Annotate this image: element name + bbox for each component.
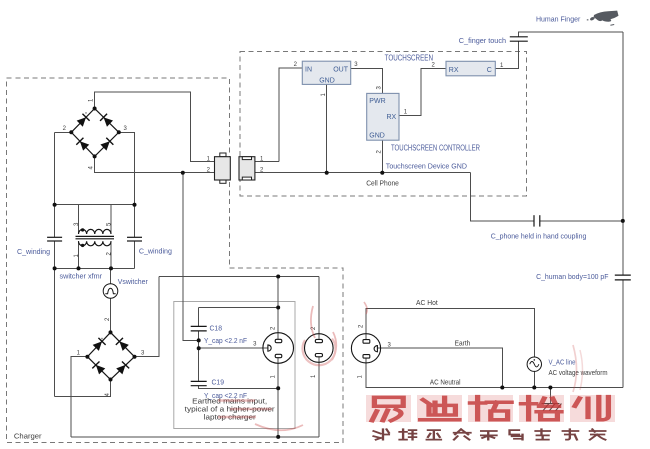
svg-text:3: 3 bbox=[388, 342, 392, 348]
connector J2 cell phone USB receptacle bbox=[239, 157, 255, 180]
wire: bridge D2 pin3 up to mains top rail bbox=[135, 277, 159, 357]
svg-text:Charger: Charger bbox=[14, 434, 42, 441]
bridge rectifier D2 (mains input bridge) bbox=[85, 330, 136, 381]
node: D2 left vertex bbox=[85, 355, 89, 359]
wire: connector J3 pin1 vertical bbox=[277, 358, 279, 437]
node: mains top rail / J3 pin2 bbox=[276, 275, 280, 279]
svg-text:OUT: OUT bbox=[333, 67, 349, 74]
svg-text:Vswitcher: Vswitcher bbox=[118, 279, 149, 286]
svg-text:1: 1 bbox=[321, 93, 327, 97]
bridge D2 diamond frame bbox=[87, 332, 134, 379]
transformer T1 switcher xfmr bbox=[76, 228, 115, 247]
diode D2d bottom-right bbox=[116, 361, 129, 374]
svg-text:1: 1 bbox=[270, 375, 276, 379]
wire: transformer pin3 stub bbox=[78, 205, 80, 234]
node: xfmr pin1 junction bbox=[77, 266, 81, 270]
bridge rectifier D1 (charger output bridge) bbox=[69, 107, 121, 159]
capacitor C_finger touch bbox=[510, 37, 528, 41]
wire: transformer pin1 stub bbox=[78, 241, 80, 268]
capacitor C18 Y-cap bbox=[191, 326, 207, 331]
svg-text:C_winding: C_winding bbox=[17, 249, 50, 256]
svg-text:C18: C18 bbox=[210, 326, 223, 333]
svg-text:Touchscreen Device GND: Touchscreen Device GND bbox=[386, 164, 467, 171]
capacitor C_phone held in hand coupling bbox=[534, 215, 540, 226]
node: C18 bottom riser junction bbox=[197, 338, 201, 342]
svg-text:2: 2 bbox=[376, 150, 382, 154]
svg-text:Earth: Earth bbox=[455, 341, 471, 348]
svg-text:C19: C19 bbox=[212, 379, 225, 386]
svg-text:C: C bbox=[487, 67, 492, 74]
wire: C_phone coupling right lead bbox=[540, 220, 623, 222]
node: human finger line / C_phone bbox=[621, 219, 625, 223]
wire: transformer top rail bbox=[55, 204, 135, 206]
svg-text:GND: GND bbox=[369, 133, 385, 140]
wire: human body right vertical middle bbox=[622, 221, 624, 275]
node: D1 top vertex bbox=[93, 107, 97, 111]
source V_AC line bbox=[527, 357, 541, 371]
diode D2a top-left bbox=[92, 338, 105, 351]
svg-text:C_finger touch: C_finger touch bbox=[459, 38, 506, 45]
svg-text:Y_cap <2.2 nF: Y_cap <2.2 nF bbox=[204, 338, 247, 345]
svg-text:*: * bbox=[85, 112, 87, 118]
svg-text:switcher xfmr: switcher xfmr bbox=[60, 273, 103, 280]
diode D2c bottom-left bbox=[92, 361, 105, 374]
node: D1 right vertex bbox=[117, 130, 121, 134]
svg-text:1: 1 bbox=[89, 98, 95, 102]
touchscreen controller U2 block bbox=[367, 93, 399, 140]
watermark pink underlay bbox=[366, 395, 615, 422]
wire: human body right vertical lower bbox=[622, 280, 624, 388]
wire: C_finger touch to Human Finger line bbox=[519, 32, 623, 37]
wire: plug P2 pin1 stub bbox=[318, 357, 320, 437]
svg-text:2: 2 bbox=[432, 62, 436, 68]
node: Y-cap box rail / J3 pin2 bbox=[276, 306, 280, 310]
svg-text:TOUCHSCREEN CONTROLLER: TOUCHSCREEN CONTROLLER bbox=[391, 144, 480, 153]
diode D1c bottom-left bbox=[76, 138, 89, 151]
capacitor C19 Y-cap bbox=[191, 381, 207, 385]
node: U1 GND on ground rail bbox=[325, 171, 329, 175]
svg-text:3: 3 bbox=[124, 126, 128, 132]
svg-text:2: 2 bbox=[270, 326, 276, 330]
wire: Y-cap box top rail bbox=[199, 307, 279, 309]
svg-text:AC Hot: AC Hot bbox=[416, 300, 438, 307]
wire: human body right vertical upper bbox=[622, 32, 624, 221]
node: V_AC on neutral bbox=[532, 386, 536, 390]
diode D1d bottom-right bbox=[100, 138, 113, 151]
capacitor C_winding left bbox=[47, 237, 62, 241]
svg-text:*: * bbox=[101, 338, 103, 344]
touchscreen U3 RX/C block bbox=[446, 61, 495, 76]
svg-text:AC voltage waveform: AC voltage waveform bbox=[549, 370, 608, 377]
wire: AC Neutral bbox=[366, 358, 623, 387]
earth ground symbol bbox=[542, 404, 562, 411]
wire: connector J2 pin1 to IN riser bbox=[255, 161, 279, 163]
wire: connector J3 pin3 earth lead bbox=[199, 347, 268, 349]
wire: right C_winding bottom lead bbox=[134, 241, 136, 268]
source Vswitcher bbox=[103, 284, 118, 299]
svg-text:2: 2 bbox=[359, 324, 365, 328]
capacitor C_human body 100pF bbox=[615, 275, 631, 280]
wire: ground rail down to C_phone coupling bbox=[470, 173, 534, 221]
svg-text:V_AC line: V_AC line bbox=[549, 360, 576, 367]
svg-text:1: 1 bbox=[500, 63, 504, 69]
node: U2 GND on ground rail bbox=[380, 171, 384, 175]
wire: left vertical lower (C1 bottom to bridge D2 pin4 net) bbox=[54, 241, 56, 396]
svg-text:3: 3 bbox=[253, 342, 257, 348]
Earthed mains input solid sub-box bbox=[174, 302, 295, 429]
wire: mains bottom rail bbox=[71, 436, 319, 438]
node: earth to neutral bbox=[500, 386, 504, 390]
diode D1b top-right bbox=[100, 114, 113, 127]
svg-text:2: 2 bbox=[63, 126, 67, 132]
svg-text:1: 1 bbox=[404, 109, 408, 115]
node: D2 bottom vertex bbox=[109, 378, 113, 382]
T1 phase dot bottom bbox=[81, 244, 84, 247]
node: Y-cap midpoint earth junction bbox=[197, 346, 201, 350]
node: ground stub on neutral bbox=[548, 386, 552, 390]
wire: U1 OUT pin3 to controller U2 PWR pin3 bbox=[351, 69, 383, 94]
svg-text:1: 1 bbox=[311, 374, 317, 378]
wire: C18 top lead bbox=[198, 308, 200, 327]
svg-text:2: 2 bbox=[294, 62, 298, 68]
wire: bridge D2 pin1 down to bottom rail bbox=[71, 357, 87, 437]
node: pin2 rail to Y-cap riser bbox=[181, 171, 185, 175]
node: bottom rail / J3 pin1 bbox=[276, 435, 280, 439]
diode D1a top-left bbox=[76, 114, 89, 127]
wire: bridge D1 pin3 to right C_winding top bbox=[119, 132, 135, 204]
svg-text:Cell Phone: Cell Phone bbox=[366, 181, 399, 188]
wire: right C_winding top lead bbox=[134, 205, 136, 238]
node: D1 bottom vertex bbox=[93, 154, 97, 158]
wire: left vertical upper (C_winding C1 top lead) bbox=[54, 132, 56, 237]
node: xfmr pin2 junction bbox=[109, 266, 113, 270]
wire: C18-C19 middle chain bbox=[198, 331, 200, 382]
capacitor C_winding right bbox=[127, 237, 142, 241]
bridge D1 diamond frame bbox=[71, 109, 119, 157]
wire: regulator U1 pin2 IN lead bbox=[279, 68, 302, 162]
svg-text:IN: IN bbox=[305, 67, 312, 74]
node: D2 top vertex bbox=[109, 330, 113, 334]
wire: U2 RX pin1 to touchscreen U3 pin2 bbox=[399, 69, 446, 116]
node: D2 right vertex bbox=[133, 355, 137, 359]
wire: Vswitcher top stub bbox=[110, 268, 112, 283]
wire: U2 GND pin2 lead bbox=[381, 140, 383, 173]
wire: U3 C pin1 to C_finger touch bbox=[495, 41, 519, 68]
svg-text:AC Neutral: AC Neutral bbox=[430, 380, 461, 387]
wire: plug P2 pin2 stub bbox=[318, 277, 320, 340]
watermark big red characters bbox=[372, 397, 608, 421]
node: xfmr bottom rail left bbox=[53, 266, 57, 270]
wire: Earth bbox=[377, 348, 502, 387]
wire: Y-cap riser from pin2 rail down to C18/C19 junction bbox=[183, 173, 199, 341]
node: D1 left vertex bbox=[69, 130, 73, 134]
diode D2b top-right bbox=[116, 338, 129, 351]
wire: Vswitcher bottom to bridge D2 pin2 bbox=[110, 298, 112, 332]
red watermark scribbles bbox=[218, 302, 583, 430]
svg-text:PWR: PWR bbox=[369, 98, 385, 105]
wire: cell phone ground rail bbox=[255, 172, 470, 174]
wire: C19 bottom lead to connector J3 pin1 bbox=[199, 386, 279, 389]
connector J1 charger USB plug bbox=[215, 153, 231, 183]
wire: mains top rail bbox=[159, 276, 319, 278]
svg-text:3: 3 bbox=[141, 350, 145, 356]
human finger hand icon bbox=[587, 11, 619, 26]
svg-text:C_phone held in hand coupling: C_phone held in hand coupling bbox=[491, 233, 587, 240]
node: C19 bottom / J3 pin1 bbox=[276, 386, 280, 390]
T1 secondary winding (bottom) bbox=[79, 241, 111, 246]
regulator U1 IN/OUT/GND block bbox=[302, 61, 350, 84]
wire: earth ground stub bbox=[549, 388, 551, 404]
svg-text:Human Finger: Human Finger bbox=[536, 17, 581, 24]
wire: bridge D2 pin4 down and left bbox=[55, 380, 111, 397]
svg-text:RX: RX bbox=[386, 114, 396, 121]
svg-text:1: 1 bbox=[357, 375, 363, 379]
wire: connector J3 pin2 vertical bbox=[277, 277, 279, 340]
connector J3 laptop inlet (3-pin, earthed) bbox=[263, 333, 294, 364]
wire: bridge D1 pin4 rail to connector J1 pin2 bbox=[95, 156, 215, 172]
node: xfmr top rail left bbox=[53, 203, 57, 207]
T1 core lines bbox=[76, 235, 115, 237]
svg-text:4: 4 bbox=[89, 166, 95, 170]
wire: transformer bottom rail bbox=[55, 267, 135, 269]
watermark small dark red characters bbox=[374, 429, 606, 439]
wire: bridge D1 pin1 (+) to connector J1 pin1 bbox=[95, 92, 215, 162]
svg-text:RX: RX bbox=[449, 67, 459, 74]
connector P2 charger 2-pin mains plug bbox=[305, 334, 334, 363]
svg-text:GND: GND bbox=[319, 78, 335, 85]
T1 primary winding (top) bbox=[79, 229, 111, 234]
node: xfmr top rail right bbox=[133, 203, 137, 207]
wire: transformer pin2 stub bbox=[110, 241, 112, 268]
Cell Phone dashed enclosure box bbox=[240, 52, 526, 196]
svg-text:3: 3 bbox=[354, 62, 358, 68]
wire: U1 GND pin1 to ground rail bbox=[326, 84, 328, 172]
svg-text:1: 1 bbox=[77, 350, 81, 356]
T1 phase dot top bbox=[81, 228, 84, 231]
wire: AC Hot bbox=[366, 309, 534, 358]
wire: V_AC bottom stub bbox=[533, 371, 535, 387]
Charger dashed enclosure box bbox=[7, 78, 344, 442]
svg-text:C_winding: C_winding bbox=[139, 249, 172, 256]
svg-text:TOUCHSCREEN: TOUCHSCREEN bbox=[385, 53, 434, 62]
svg-text:3: 3 bbox=[376, 86, 382, 90]
wire: transformer pin5 stub bbox=[110, 205, 112, 234]
wire: bridge D1 pin2 to left C_winding top bbox=[55, 131, 72, 133]
connector J4 wall outlet (3-pin) bbox=[351, 334, 380, 363]
svg-text:C_human body=100 pF: C_human body=100 pF bbox=[536, 274, 608, 281]
